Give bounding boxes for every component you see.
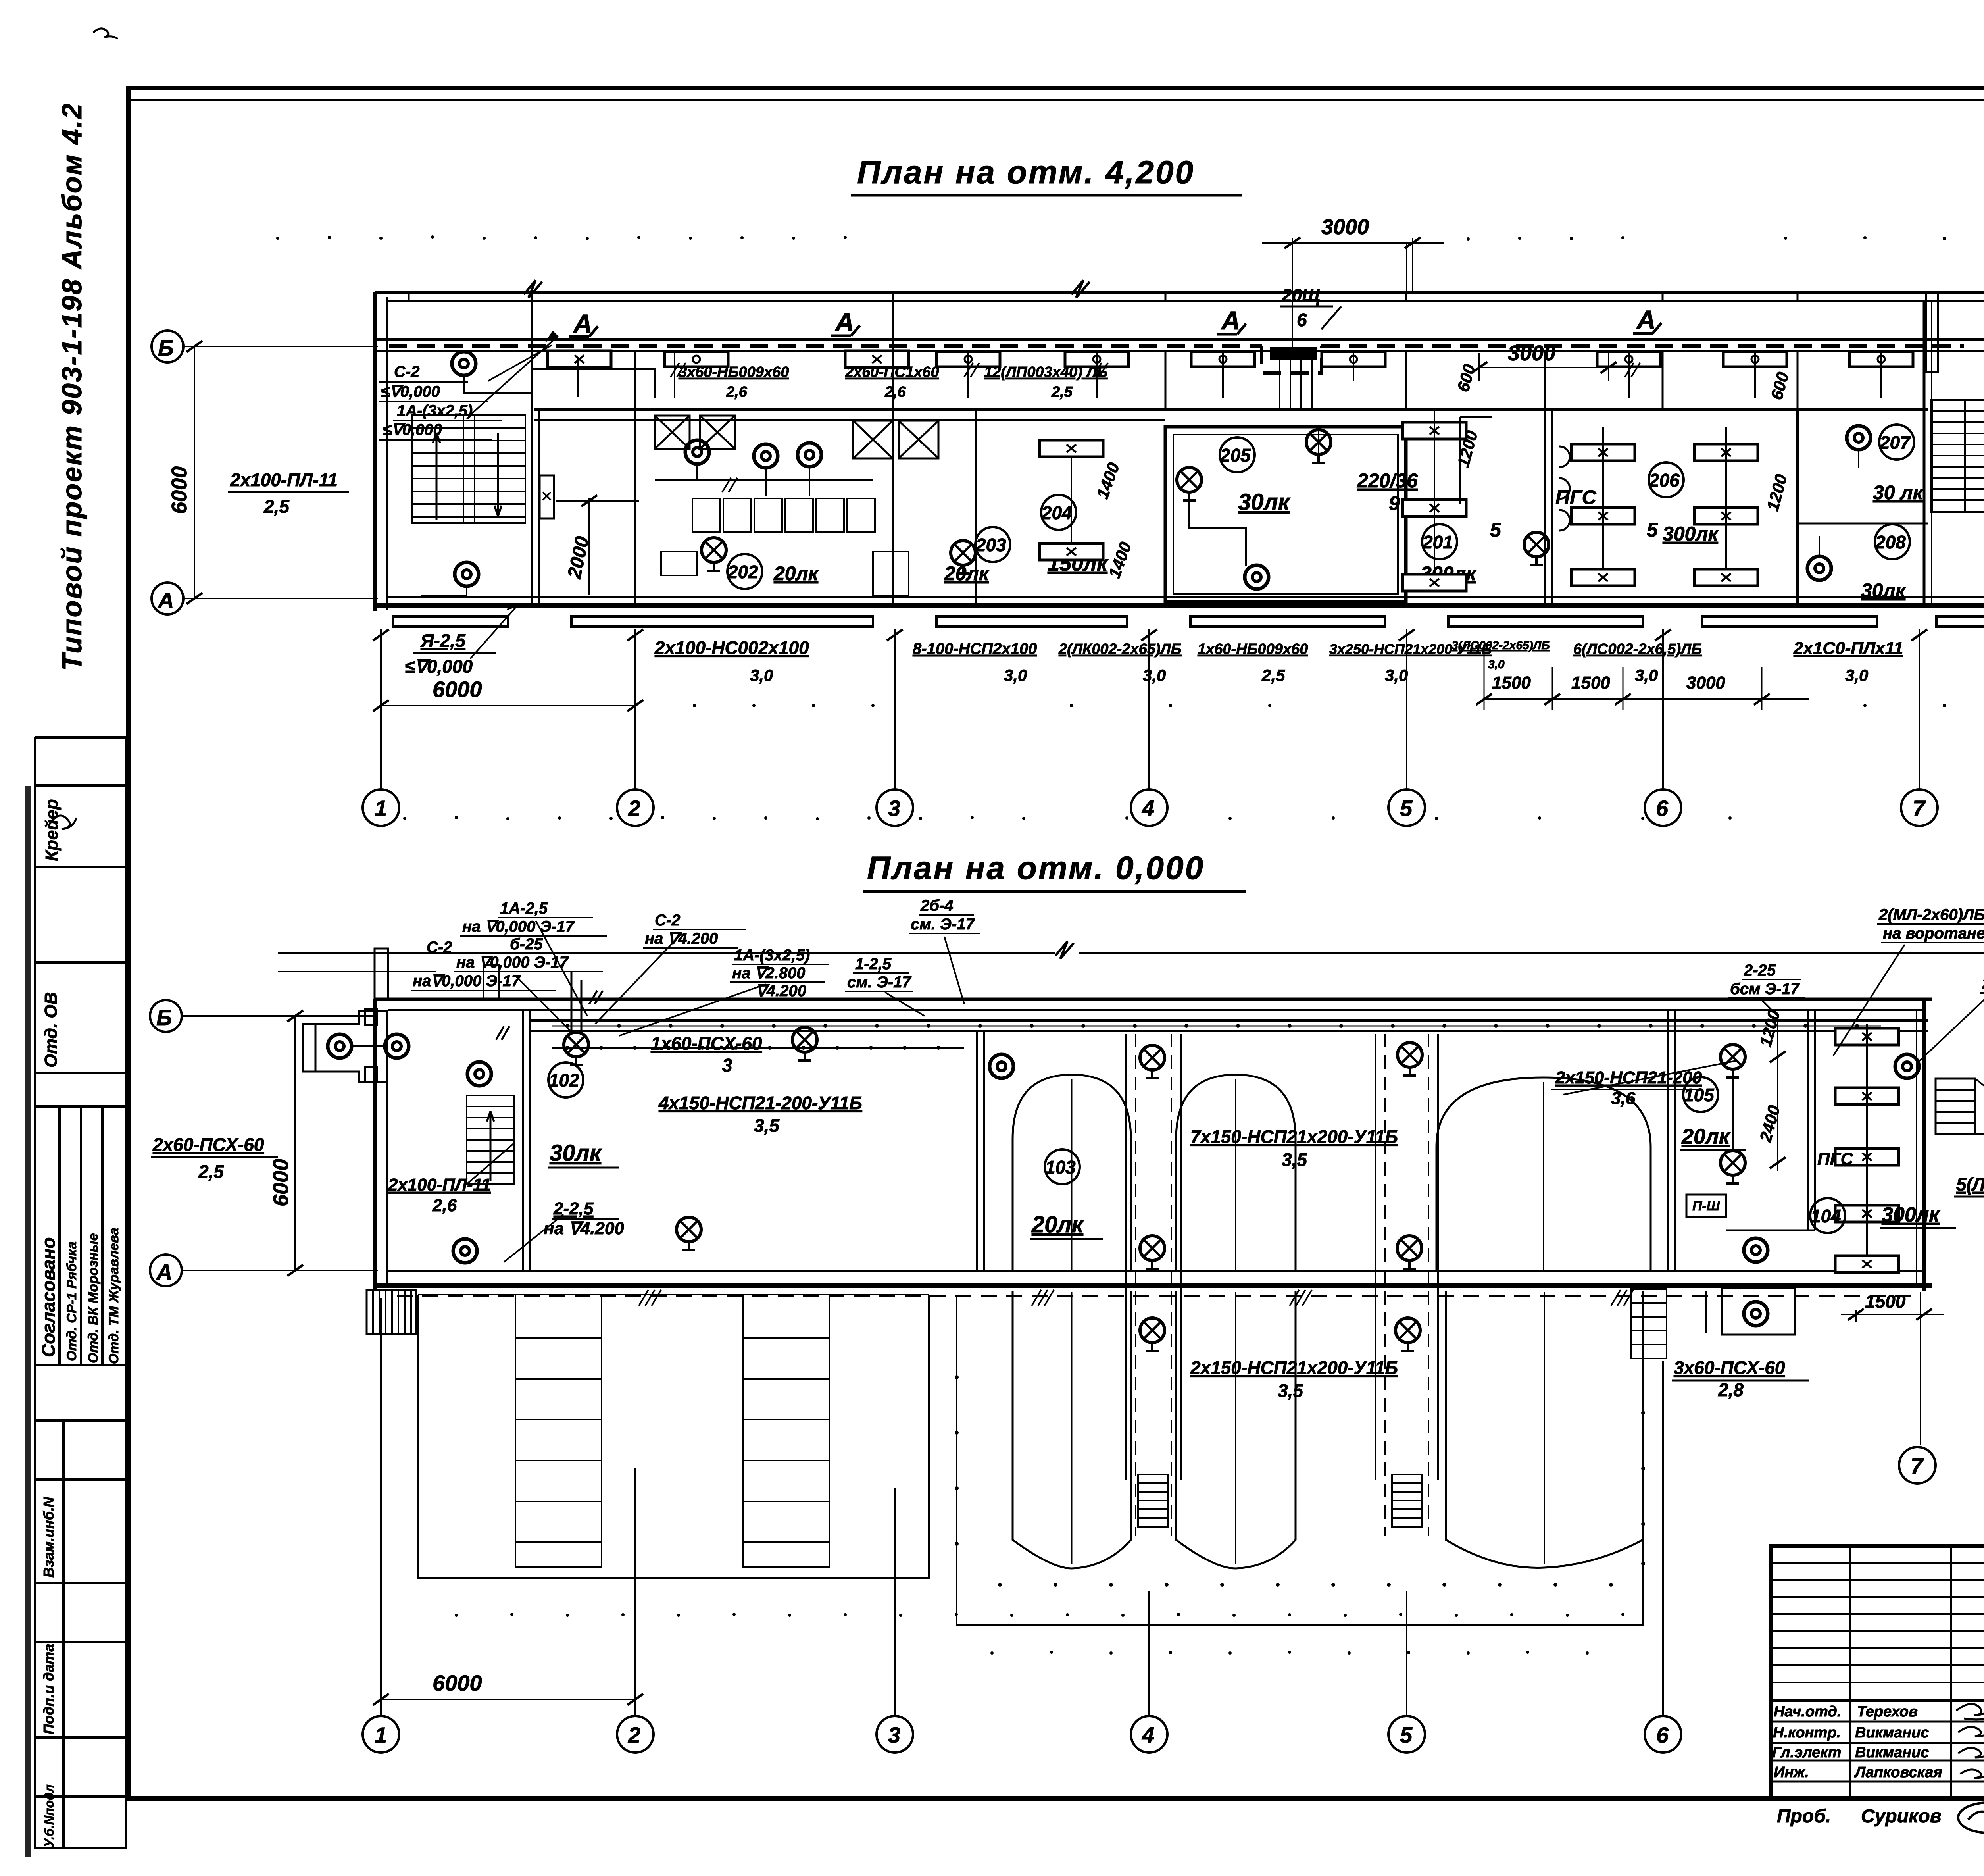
left grid thin rows bbox=[1771, 1562, 1984, 1564]
signature squiggles bbox=[1956, 1704, 1984, 1778]
panel 20Щ bbox=[1270, 347, 1317, 360]
labels above upper plan: circuit names bbox=[679, 364, 1107, 400]
svg-text:20Щ: 20Щ bbox=[1281, 285, 1320, 306]
window band below bottom wall (lower plan) bbox=[418, 1294, 929, 1295]
svg-text:6: 6 bbox=[1656, 1722, 1669, 1747]
svg-text:5: 5 bbox=[1400, 796, 1413, 821]
svg-text:на ∇4.200: на ∇4.200 bbox=[645, 930, 718, 947]
lamp fixture L29 bbox=[1721, 1151, 1745, 1183]
luminaire box B2 bbox=[665, 352, 728, 367]
svg-text:2,8: 2,8 bbox=[1718, 1380, 1744, 1400]
column 7 circle (lower) bbox=[1920, 1292, 1921, 1445]
lamp fixture L13 bbox=[1524, 532, 1549, 565]
luminaire box B10 bbox=[1849, 352, 1913, 367]
svg-text:3000: 3000 bbox=[1321, 215, 1369, 239]
svg-text:бсм Э-17: бсм Э-17 bbox=[1730, 980, 1800, 998]
svg-text:б-25: б-25 bbox=[510, 935, 543, 953]
svg-text:4: 4 bbox=[1142, 796, 1154, 821]
lamp pendant L15 bbox=[385, 1034, 409, 1058]
svg-text:6: 6 bbox=[1656, 796, 1669, 821]
svg-text:9: 9 bbox=[1389, 492, 1400, 514]
svg-text:Подп.и дата: Подп.и дата bbox=[40, 1644, 57, 1734]
lamp fixture L9 bbox=[702, 538, 726, 571]
lamp pendant L2 bbox=[455, 562, 479, 586]
building outline upper plan bbox=[375, 292, 1984, 611]
svg-text:3,5: 3,5 bbox=[1282, 1149, 1307, 1170]
svg-text:Взам.инб.N: Взам.инб.N bbox=[40, 1497, 57, 1578]
luminaire box B19 bbox=[1835, 1205, 1899, 1222]
svg-text:2,6: 2,6 bbox=[432, 1196, 457, 1215]
right staircase upper plan bbox=[1932, 400, 1984, 512]
svg-text:203: 203 bbox=[975, 535, 1006, 555]
svg-text:202: 202 bbox=[727, 562, 758, 582]
luminaire box B3 bbox=[845, 351, 909, 368]
axis Б (upper) bbox=[152, 331, 183, 362]
svg-text:20лк: 20лк bbox=[773, 562, 819, 585]
parapet tabs on top wall bbox=[375, 949, 388, 1000]
luminaire box B13 bbox=[1403, 422, 1466, 439]
svg-text:Викманис: Викманис bbox=[1855, 1744, 1929, 1761]
svg-text:Типовой проект 903-1-198 А: Типовой проект 903-1-198 Альбом 4.2 bbox=[56, 102, 87, 671]
pit ladder strips bbox=[515, 1295, 829, 1567]
svg-text:4: 4 bbox=[1142, 1722, 1154, 1747]
svg-text:2(ЛК002-2х65)ЛБ: 2(ЛК002-2х65)ЛБ bbox=[1058, 641, 1182, 658]
upper plan band partitions bbox=[532, 301, 1798, 410]
svg-text:2,6: 2,6 bbox=[726, 384, 748, 400]
sidebar rotated labels bbox=[38, 799, 121, 1847]
svg-text:3,0: 3,0 bbox=[1635, 666, 1658, 685]
svg-text:Я-2,5: Я-2,5 bbox=[420, 630, 466, 651]
svg-text:на ∇4.200: на ∇4.200 bbox=[544, 1219, 624, 1238]
lamp fixture L10 bbox=[951, 541, 975, 573]
rooms 105 and 104 partitions bbox=[1668, 1010, 1815, 1271]
svg-text:8-100-НСП2х100: 8-100-НСП2х100 bbox=[913, 640, 1037, 658]
svg-text:30лк: 30лк bbox=[550, 1140, 602, 1166]
svg-text:П-Ш: П-Ш bbox=[1692, 1199, 1720, 1214]
thin line above lower plan with break bbox=[278, 952, 1055, 954]
svg-text:3,5: 3,5 bbox=[754, 1115, 780, 1136]
lamp fixture L11 bbox=[1177, 468, 1202, 500]
svg-text:Нач.отд.: Нач.отд. bbox=[1774, 1703, 1841, 1720]
luminaire box B18 bbox=[1835, 1149, 1899, 1165]
svg-text:5: 5 bbox=[1490, 519, 1501, 541]
svg-text:План на отм. 0,000: План на отм. 0,000 bbox=[867, 850, 1205, 886]
luminaire box B6 bbox=[1191, 352, 1255, 367]
lamp pendant L4 bbox=[754, 444, 778, 468]
svg-text:3,0: 3,0 bbox=[1845, 666, 1868, 685]
svg-text:А: А bbox=[156, 1260, 172, 1285]
svg-text:2х60-ПС1х60: 2х60-ПС1х60 bbox=[845, 364, 939, 381]
svg-text:на∇0,000 Э-17: на∇0,000 Э-17 bbox=[413, 972, 521, 990]
svg-text:1: 1 bbox=[375, 796, 387, 821]
svg-text:3: 3 bbox=[722, 1055, 732, 1076]
svg-text:5: 5 bbox=[1400, 1722, 1413, 1747]
lamp pendant L8 bbox=[1807, 556, 1831, 580]
svg-text:4х150-НСП21-200-У11Б: 4х150-НСП21-200-У11Б bbox=[658, 1093, 862, 1113]
lamp fixture L22 bbox=[1140, 1045, 1165, 1078]
luminaire box B14 bbox=[1040, 440, 1103, 457]
luminaire box B8 bbox=[1597, 352, 1661, 367]
luminaire box B7 bbox=[1322, 352, 1385, 367]
vertical dim 6000 between А and Б bbox=[194, 346, 195, 598]
lamp fixture L28 bbox=[1721, 1045, 1745, 1077]
left sidebar stamp table bbox=[35, 737, 126, 1849]
svg-text:План на отм. 4,200: План на отм. 4,200 bbox=[857, 154, 1195, 190]
svg-text:2х100-ПЛ-11: 2х100-ПЛ-11 bbox=[230, 469, 338, 490]
lamp pendant L7 bbox=[1847, 426, 1871, 450]
svg-text:220/36: 220/36 bbox=[1357, 469, 1418, 492]
leader lines from stacks to wall bbox=[536, 921, 587, 1016]
lamp fixture L26 bbox=[1140, 1318, 1165, 1351]
svg-text:220/36: 220/36 bbox=[1982, 975, 1984, 993]
tank centre axis lines bbox=[1072, 1079, 1544, 1564]
left pit below building bbox=[418, 1295, 929, 1578]
svg-text:на ∇0,000 Э-17: на ∇0,000 Э-17 bbox=[462, 918, 575, 935]
svg-text:105: 105 bbox=[1684, 1085, 1715, 1105]
svg-text:3х60-ПСХ-60: 3х60-ПСХ-60 bbox=[1674, 1357, 1785, 1378]
svg-text:А: А bbox=[157, 588, 174, 613]
svg-text:3,0: 3,0 bbox=[750, 666, 773, 685]
svg-text:104: 104 bbox=[1811, 1206, 1841, 1226]
wiring risers at top-left of lower plan bbox=[496, 972, 603, 1040]
svg-text:1х60-ПСХ-60: 1х60-ПСХ-60 bbox=[651, 1033, 762, 1054]
svg-text:103: 103 bbox=[1045, 1157, 1076, 1178]
svg-text:2х100-НС002х100: 2х100-НС002х100 bbox=[654, 637, 809, 658]
svg-text:У.б.Nподл: У.б.Nподл bbox=[42, 1784, 56, 1847]
lamp fixture L16 bbox=[564, 1032, 588, 1065]
svg-text:6: 6 bbox=[1297, 310, 1307, 330]
svg-text:30 лк: 30 лк bbox=[1873, 481, 1924, 504]
left entrance porch bbox=[303, 1009, 387, 1083]
svg-text:2х150-НСП21х200-У11Б: 2х150-НСП21х200-У11Б bbox=[1190, 1357, 1398, 1378]
section flag marks under А letters bbox=[569, 323, 1661, 337]
svg-text:Проб.: Проб. bbox=[1777, 1806, 1831, 1827]
svg-text:≤∇0,000: ≤∇0,000 bbox=[381, 383, 440, 400]
svg-text:3: 3 bbox=[888, 1722, 900, 1747]
luminaire box B20 bbox=[1835, 1256, 1899, 1272]
luminaire box B11 bbox=[1571, 444, 1635, 461]
wall on axis Б (upper plan) bbox=[375, 338, 1984, 341]
svg-text:на ∇0,000 Э-17: на ∇0,000 Э-17 bbox=[456, 954, 569, 971]
svg-text:7х150-НСП21х200-У11Б: 7х150-НСП21х200-У11Б bbox=[1190, 1126, 1398, 1147]
svg-text:3,0: 3,0 bbox=[1143, 666, 1166, 685]
svg-text:2,6: 2,6 bbox=[884, 384, 906, 400]
svg-text:Отд. ВК Морозные: Отд. ВК Морозные bbox=[86, 1233, 101, 1364]
svg-text:ПГС: ПГС bbox=[1555, 486, 1597, 508]
svg-text:5: 5 bbox=[1647, 519, 1658, 541]
dim 1500 (lower right) bbox=[1855, 1310, 1857, 1322]
gallery pilaster ticks bbox=[409, 292, 1798, 301]
top dim 3000 at panel bbox=[1292, 238, 1293, 347]
luminaire box B12 bbox=[1694, 444, 1758, 461]
scribble top-left corner bbox=[93, 29, 118, 39]
window band below bottom wall (upper plan) bbox=[393, 616, 1984, 627]
svg-text:3,0: 3,0 bbox=[1385, 666, 1408, 685]
svg-text:2,5: 2,5 bbox=[263, 496, 290, 517]
lamp fixture L17 bbox=[792, 1027, 817, 1060]
svg-text:12(ЛП003х40) ЛБ: 12(ЛП003х40) ЛБ bbox=[984, 364, 1107, 381]
dotted row above upper plan bbox=[276, 235, 1984, 244]
right dim 3000 (upper plan) bbox=[1479, 367, 1609, 368]
svg-text:3,0: 3,0 bbox=[1004, 666, 1027, 685]
svg-text:3,0: 3,0 bbox=[1488, 658, 1505, 671]
lamp fixture L18 bbox=[677, 1217, 701, 1250]
svg-text:С-2: С-2 bbox=[655, 912, 680, 929]
svg-text:7: 7 bbox=[1913, 796, 1926, 821]
svg-text:20лк: 20лк bbox=[1681, 1125, 1731, 1149]
svg-text:201: 201 bbox=[1422, 532, 1453, 552]
svg-text:≤∇0,000: ≤∇0,000 bbox=[383, 421, 442, 439]
lamp fixture L25 bbox=[1397, 1236, 1422, 1269]
corridor wall (upper plan) bbox=[534, 408, 1928, 411]
svg-text:Лапковская: Лапковская bbox=[1854, 1764, 1942, 1781]
svg-text:Крейер: Крейер bbox=[42, 799, 62, 861]
svg-text:3000: 3000 bbox=[1686, 673, 1725, 693]
misc interior wiring upper plan bbox=[421, 357, 1859, 595]
lamp pendant L31 bbox=[1744, 1238, 1768, 1262]
partition left room 102 bbox=[522, 1010, 524, 1271]
svg-text:А: А bbox=[573, 309, 592, 338]
svg-text:2х150-НСП21-200: 2х150-НСП21-200 bbox=[1555, 1068, 1702, 1087]
svg-text:1х60-НБ009х60: 1х60-НБ009х60 bbox=[1198, 641, 1308, 658]
svg-text:2-25: 2-25 bbox=[1744, 962, 1776, 979]
svg-text:7: 7 bbox=[1911, 1453, 1924, 1478]
right outside staircase (lower plan) bbox=[1936, 1079, 1984, 1134]
svg-text:3000: 3000 bbox=[1508, 341, 1555, 365]
signature rows bbox=[1772, 1703, 1984, 1781]
lamp pendant L19 bbox=[467, 1062, 491, 1086]
dashed circuit along bottom wall bbox=[397, 1295, 1917, 1297]
tanks with arched tops in main hall bbox=[1013, 1075, 1651, 1271]
svg-text:1500: 1500 bbox=[1865, 1291, 1906, 1312]
svg-text:2х1С0-ПЛх11: 2х1С0-ПЛх11 bbox=[1793, 639, 1903, 658]
svg-text:Отд. СР-1 Рябчка: Отд. СР-1 Рябчка bbox=[64, 1241, 79, 1361]
dark scan streak on left paper edge bbox=[25, 786, 31, 1857]
svg-text:5(ЛС002-2х65)ЛБ: 5(ЛС002-2х65)ЛБ bbox=[1956, 1174, 1984, 1195]
svg-text:А: А bbox=[834, 307, 854, 337]
luminaire box B15 bbox=[1040, 543, 1103, 560]
room 103 circle and lux bbox=[1045, 1149, 1080, 1184]
svg-text:208: 208 bbox=[1875, 532, 1906, 552]
dashed lighting main (upper plan) bbox=[389, 346, 1964, 373]
svg-text:1А-2,5: 1А-2,5 bbox=[500, 900, 548, 917]
building outline lower plan bbox=[375, 999, 1932, 1291]
top label stacks above lower plan bbox=[413, 897, 1984, 1014]
svg-text:20лк: 20лк bbox=[1031, 1212, 1084, 1237]
room 202 wiring bbox=[532, 369, 873, 492]
svg-text:Терехов: Терехов bbox=[1857, 1703, 1918, 1720]
labels under upper plan: circuit names row bbox=[654, 637, 1903, 685]
lamp fixture L23 bbox=[1398, 1043, 1422, 1076]
lamp pendant L21 bbox=[990, 1054, 1013, 1078]
svg-text:6(ЛС002-2х6,5)ЛБ: 6(ЛС002-2х6,5)ЛБ bbox=[1573, 641, 1702, 658]
vertical dim 6000 (lower) bbox=[294, 1016, 296, 1270]
svg-text:ПГС: ПГС bbox=[1817, 1149, 1854, 1169]
svg-text:Б: Б bbox=[156, 1005, 172, 1030]
svg-text:2-2,5: 2-2,5 bbox=[553, 1199, 594, 1218]
svg-text:300лк: 300лк bbox=[1663, 523, 1719, 545]
lamp fixture L24 bbox=[1140, 1236, 1165, 1269]
bottom centre porch (lower plan) bbox=[1706, 1288, 1795, 1335]
svg-text:3: 3 bbox=[888, 796, 900, 821]
svg-text:С-2: С-2 bbox=[394, 363, 419, 381]
svg-text:Отд. ОВ: Отд. ОВ bbox=[41, 992, 61, 1068]
break symbol on upper plan top line bbox=[1071, 280, 1090, 298]
WC stalls row bbox=[661, 498, 909, 595]
room 102 texts bbox=[548, 1062, 583, 1097]
svg-text:3,5: 3,5 bbox=[1278, 1380, 1303, 1401]
svg-text:1А-(3х2,5): 1А-(3х2,5) bbox=[397, 402, 473, 419]
staircase room 102 bbox=[467, 1095, 514, 1184]
lamp fixture L27 bbox=[1396, 1318, 1420, 1351]
lamp pendant L3 bbox=[685, 440, 709, 464]
lamp pendant L32 bbox=[1744, 1302, 1768, 1326]
svg-text:2: 2 bbox=[628, 1722, 640, 1747]
svg-text:Согласовано: Согласовано bbox=[38, 1237, 59, 1357]
svg-text:Суриков: Суриков bbox=[1861, 1806, 1942, 1827]
partition room102/hall bbox=[976, 1031, 978, 1271]
svg-text:А: А bbox=[1221, 306, 1240, 335]
right pilaster and dotted boundary bbox=[1926, 292, 1938, 372]
svg-text:6000: 6000 bbox=[433, 677, 482, 702]
svg-text:на ∇2.800: на ∇2.800 bbox=[732, 964, 805, 982]
svg-text:3,6: 3,6 bbox=[1611, 1089, 1636, 1108]
lamp pendant L6 bbox=[1245, 565, 1269, 589]
svg-text:20лк: 20лк bbox=[944, 562, 990, 585]
svg-text:30лк: 30лк bbox=[1238, 489, 1291, 515]
lamp pendant L5 bbox=[798, 443, 821, 467]
wall sconces room 206 left wall bbox=[1559, 446, 1570, 531]
luminaire box B9 bbox=[1723, 352, 1787, 367]
svg-text:2(МЛ-2х60)ЛБ: 2(МЛ-2х60)ЛБ bbox=[1878, 906, 1984, 924]
svg-text:Гл.элект: Гл.элект bbox=[1772, 1744, 1841, 1761]
wiring dots along Б wall (lower) bbox=[565, 1024, 1859, 1028]
room 102 ceiling wiring line with dots bbox=[552, 1047, 964, 1049]
svg-text:6000: 6000 bbox=[433, 1670, 482, 1695]
svg-text:2: 2 bbox=[628, 796, 640, 821]
dim 2000 (upper plan) bbox=[588, 498, 590, 595]
label stack С-2 upper-left bbox=[381, 363, 473, 439]
svg-text:1А-(3х2,5): 1А-(3х2,5) bbox=[734, 947, 810, 964]
svg-text:Б: Б bbox=[158, 335, 174, 360]
svg-text:С-2: С-2 bbox=[427, 939, 452, 956]
svg-text:3х60-НБ009х60: 3х60-НБ009х60 bbox=[679, 364, 789, 381]
lamp pendant L1 bbox=[452, 352, 476, 375]
room number circles upper plan bbox=[727, 425, 1914, 589]
svg-text:205: 205 bbox=[1220, 445, 1251, 466]
stair hatch right of col6 bbox=[1631, 1289, 1667, 1358]
column axes and circles (lower plan) bbox=[381, 1298, 1663, 1716]
svg-text:2,5: 2,5 bbox=[1051, 384, 1073, 400]
svg-text:1500: 1500 bbox=[1571, 673, 1610, 693]
axis А (lower) bbox=[150, 1255, 182, 1286]
dim 6000 under lower plan bbox=[381, 1699, 635, 1700]
svg-text:2х100-ПЛ-11: 2х100-ПЛ-11 bbox=[388, 1175, 491, 1195]
axis Б (lower) bbox=[150, 1000, 182, 1032]
wall on axis Б (lower plan) bbox=[529, 1019, 1928, 1022]
lamp pendant L30 bbox=[1895, 1054, 1919, 1078]
svg-text:206: 206 bbox=[1649, 470, 1680, 491]
upper plan interior partitions bbox=[532, 301, 1932, 606]
ventilation shafts with X bbox=[655, 416, 938, 458]
right pit boundary with dots bbox=[957, 1295, 1643, 1625]
svg-text:2б-4: 2б-4 bbox=[920, 897, 954, 914]
lamp fixture L12 bbox=[1306, 430, 1331, 463]
lamp pendant L14 bbox=[328, 1034, 352, 1058]
dim 6000 under upper plan bbox=[381, 705, 635, 706]
svg-text:Викманис: Викманис bbox=[1855, 1724, 1929, 1741]
svg-text:1: 1 bbox=[375, 1722, 387, 1747]
svg-text:1500: 1500 bbox=[1492, 673, 1531, 693]
luminaire box B16 bbox=[1835, 1028, 1899, 1045]
sparse dotted line under tank pit bbox=[990, 1651, 1589, 1655]
luminaire box B4 bbox=[936, 352, 1000, 367]
svg-text:см. Э-17: см. Э-17 bbox=[847, 974, 911, 991]
lux labels upper plan bbox=[773, 469, 1924, 602]
dotted separator row between plans bbox=[403, 816, 1732, 820]
svg-text:300лк: 300лк bbox=[1882, 1203, 1940, 1226]
svg-text:Инж.: Инж. bbox=[1774, 1764, 1809, 1781]
wire drops from lighting main to rooms bbox=[671, 353, 1881, 398]
svg-text:2,5: 2,5 bbox=[1261, 666, 1285, 685]
svg-text:1-2,5: 1-2,5 bbox=[855, 955, 892, 973]
svg-text:Отд. ТМ Журавлева: Отд. ТМ Журавлева bbox=[106, 1228, 121, 1364]
vertical luminaire with X on corridor wall bbox=[540, 475, 554, 518]
svg-text:2,5: 2,5 bbox=[198, 1161, 224, 1182]
lamp pendant L20 bbox=[453, 1239, 477, 1263]
svg-text:6000: 6000 bbox=[269, 1159, 293, 1206]
tank solid channel edges bbox=[1126, 1034, 1438, 1480]
svg-text:204: 204 bbox=[1041, 502, 1072, 523]
luminaire box B5 bbox=[1065, 352, 1128, 367]
svg-text:30лк: 30лк bbox=[1861, 579, 1907, 602]
small dims 1500 1500 3000 under upper plan bbox=[1492, 673, 1725, 693]
svg-text:207: 207 bbox=[1879, 432, 1911, 453]
staircase upper-left bbox=[412, 415, 525, 523]
svg-text:≤∇0,000: ≤∇0,000 bbox=[405, 656, 473, 677]
svg-text:2х60-ПСХ-60: 2х60-ПСХ-60 bbox=[152, 1134, 264, 1155]
svg-text:102: 102 bbox=[549, 1070, 579, 1091]
dotted line below tanks bbox=[455, 1613, 1624, 1617]
svg-text:А: А bbox=[1636, 305, 1656, 334]
luminaire box B17 bbox=[1835, 1088, 1899, 1104]
svg-text:на воротане: на воротане bbox=[1883, 925, 1984, 942]
svg-text:6000: 6000 bbox=[167, 466, 191, 514]
svg-text:см. Э-17: см. Э-17 bbox=[911, 916, 975, 933]
ladders in tank channels bbox=[1138, 1474, 1422, 1527]
axis А (upper) bbox=[152, 583, 183, 614]
dashed tank channels bbox=[1136, 1034, 1428, 1536]
luminaire box B1 bbox=[548, 351, 611, 368]
svg-text:Н.контр.: Н.контр. bbox=[1773, 1724, 1841, 1741]
svg-text:3(ЛС002-2х65)ЛБ: 3(ЛС002-2х65)ЛБ bbox=[1451, 639, 1550, 652]
column axes and circles (upper plan) bbox=[381, 243, 1919, 789]
tank bottoms below building bbox=[1013, 1291, 1643, 1568]
external stair bottom-left bbox=[367, 1290, 416, 1334]
